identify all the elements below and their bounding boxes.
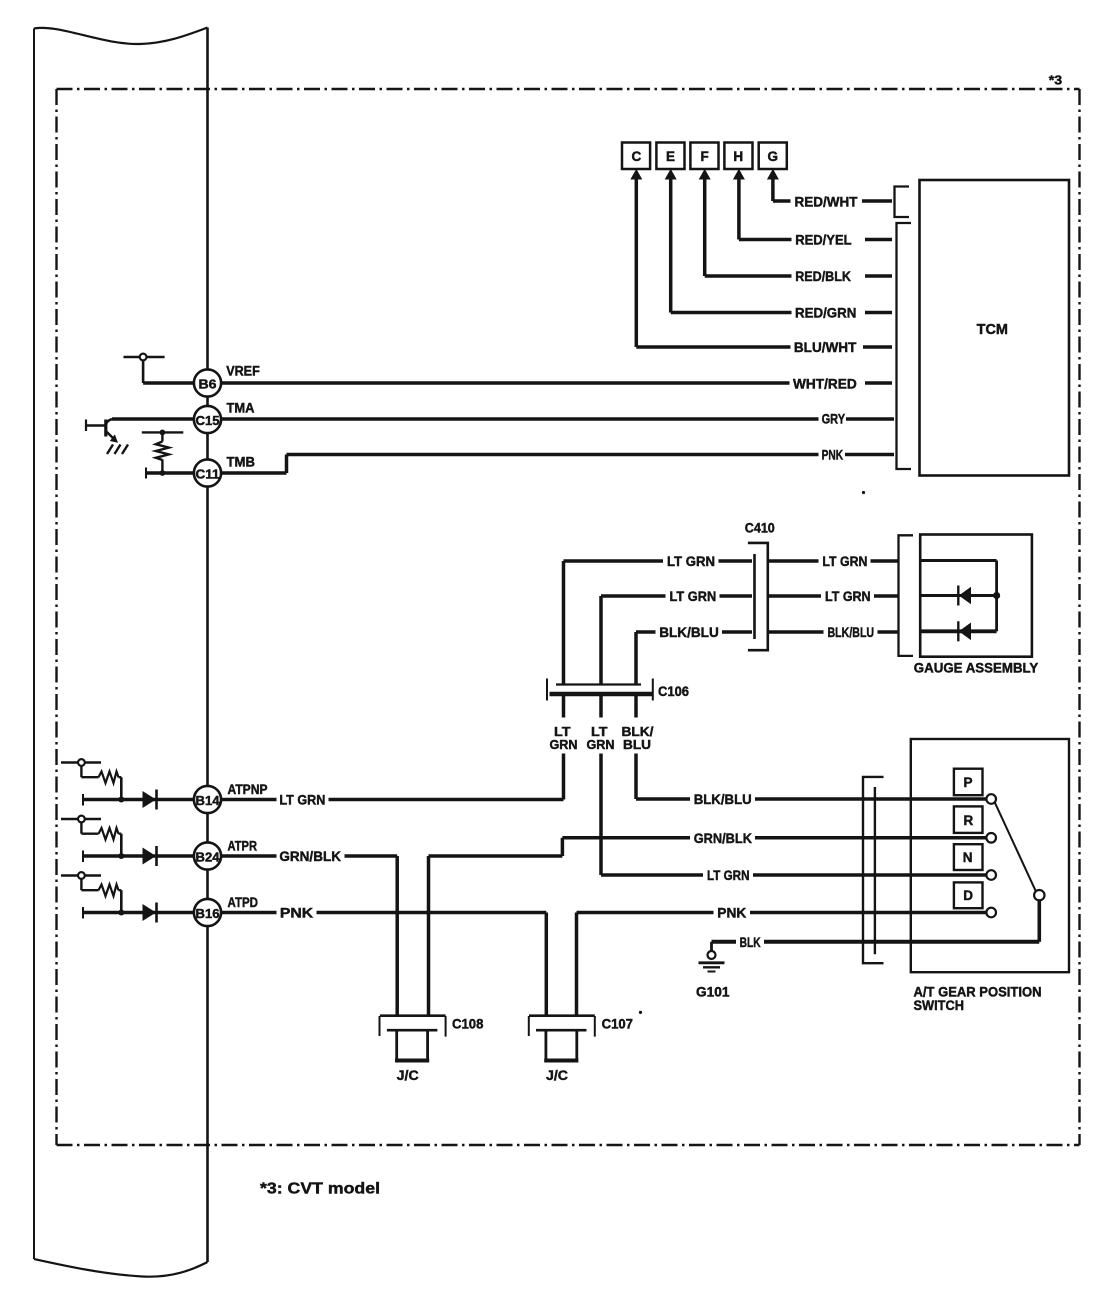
svg-text:C107: C107	[602, 1017, 633, 1032]
svg-text:J/C: J/C	[397, 1068, 419, 1083]
svg-text:BLK/BLU: BLK/BLU	[828, 624, 875, 640]
svg-text:G101: G101	[696, 985, 730, 1000]
svg-text:C108: C108	[452, 1017, 484, 1032]
svg-text:ATPD: ATPD	[228, 895, 259, 910]
svg-text:B14: B14	[196, 794, 220, 808]
svg-text:TMB: TMB	[227, 455, 256, 470]
svg-text:G: G	[768, 149, 779, 164]
svg-text:C410: C410	[745, 520, 775, 535]
svg-text:C11: C11	[196, 467, 220, 481]
svg-text:GAUGE ASSEMBLY: GAUGE ASSEMBLY	[914, 661, 1039, 676]
svg-text:LT GRN: LT GRN	[279, 792, 325, 808]
svg-text:BLU/WHT: BLU/WHT	[794, 339, 857, 355]
svg-text:TCM: TCM	[977, 322, 1008, 338]
svg-text:SWITCH: SWITCH	[914, 998, 965, 1013]
svg-text:ATPNP: ATPNP	[228, 782, 268, 797]
svg-text:GRN: GRN	[550, 737, 578, 752]
svg-text:LT GRN: LT GRN	[825, 588, 871, 604]
svg-text:RED/GRN: RED/GRN	[795, 305, 856, 321]
svg-text:C106: C106	[658, 684, 689, 699]
svg-text:B6: B6	[199, 377, 217, 391]
svg-text:H: H	[733, 149, 743, 164]
svg-text:LT GRN: LT GRN	[707, 867, 750, 883]
svg-text:LT GRN: LT GRN	[667, 553, 715, 569]
svg-text:ATPR: ATPR	[228, 839, 258, 854]
svg-text:BLU: BLU	[623, 737, 651, 752]
svg-text:BLK/BLU: BLK/BLU	[694, 791, 752, 807]
svg-text:LT GRN: LT GRN	[822, 553, 867, 569]
svg-text:R: R	[964, 813, 974, 828]
svg-text:E: E	[666, 149, 675, 164]
svg-text:RED/WHT: RED/WHT	[795, 193, 858, 209]
svg-text:RED/YEL: RED/YEL	[795, 232, 852, 248]
svg-text:GRN: GRN	[587, 737, 615, 752]
svg-text:B16: B16	[196, 907, 220, 921]
svg-text:PNK: PNK	[822, 447, 844, 463]
svg-text:PNK: PNK	[280, 905, 313, 921]
svg-text:*3: CVT model: *3: CVT model	[260, 1181, 380, 1198]
svg-text:C: C	[632, 149, 642, 164]
svg-text:PNK: PNK	[717, 905, 746, 921]
svg-text:GRY: GRY	[822, 411, 846, 427]
svg-text:TMA: TMA	[227, 400, 255, 415]
svg-text:D: D	[963, 888, 973, 903]
svg-text:*3: *3	[1049, 73, 1062, 88]
svg-text:B24: B24	[196, 850, 220, 864]
svg-text:WHT/RED: WHT/RED	[793, 375, 857, 391]
svg-text:F: F	[701, 149, 709, 164]
svg-text:BLK: BLK	[740, 934, 761, 950]
svg-text:LT GRN: LT GRN	[670, 588, 717, 604]
svg-text:J/C: J/C	[546, 1068, 568, 1083]
svg-text:GRN/BLK: GRN/BLK	[279, 848, 341, 864]
svg-text:C15: C15	[196, 414, 220, 428]
svg-text:BLK/BLU: BLK/BLU	[659, 624, 719, 640]
svg-text:RED/BLK: RED/BLK	[795, 268, 851, 284]
svg-text:N: N	[963, 850, 973, 865]
svg-text:GRN/BLK: GRN/BLK	[694, 830, 752, 846]
svg-text:P: P	[964, 775, 973, 790]
svg-text:VREF: VREF	[226, 364, 260, 379]
